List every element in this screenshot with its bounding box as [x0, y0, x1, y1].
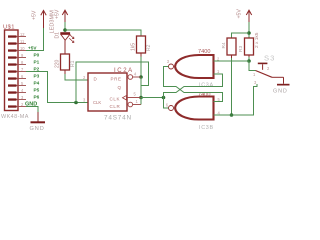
svg-text:Q: Q	[118, 85, 122, 90]
svg-text:WK48-MA: WK48-MA	[1, 114, 29, 120]
wire +5V to LED	[64, 22, 66, 32]
GND symbol under connector	[37, 112, 39, 122]
wire R3 down to switch node	[248, 57, 250, 61]
svg-text:P2: P2	[34, 66, 40, 71]
FF clock triangle on right edge	[123, 96, 127, 101]
switch S3 lever	[256, 71, 273, 78]
wire gate1 input 2 to node	[214, 60, 250, 62]
wire gate1 output cross-couple to gate2 input 5	[164, 67, 223, 102]
svg-text:11: 11	[20, 39, 25, 44]
ground at switch	[283, 77, 285, 84]
svg-text:GND: GND	[30, 126, 45, 132]
wire gate2 output to latch node	[164, 98, 169, 109]
wire R2 down to PRE node	[140, 57, 142, 78]
gate IC3B pin numbers	[166, 97, 221, 116]
svg-text:IC3B: IC3B	[199, 125, 214, 131]
node gate2 lower input	[230, 113, 234, 117]
svg-text:10: 10	[20, 46, 25, 51]
svg-text:220: 220	[55, 59, 61, 68]
svg-text:+5V: +5V	[237, 9, 243, 19]
+5V supply at LED	[62, 10, 67, 15]
connector pin lines	[17, 37, 27, 107]
node at LED anode	[63, 28, 67, 32]
svg-text:1k5: 1k5	[131, 43, 137, 51]
net labels on connector	[25, 45, 40, 107]
wire GND from connector	[26, 107, 38, 113]
nand gate IC3A bubble	[169, 64, 174, 69]
wire node down to switch contact	[249, 61, 256, 71]
flip-flop IC2A body	[88, 73, 127, 111]
nand gate IC3B bubble	[169, 106, 174, 111]
node pullup top	[247, 31, 251, 35]
svg-text:R4: R4	[221, 42, 227, 48]
svg-text:P6: P6	[34, 94, 40, 99]
svg-text:R1: R1	[70, 60, 76, 67]
svg-text:7400: 7400	[198, 49, 210, 55]
svg-text:+5V: +5V	[32, 10, 38, 20]
wire Q node to latch node	[141, 97, 164, 99]
wire P2 pin to FF CLK input	[26, 72, 88, 103]
wire R4 down to gate2 input node	[231, 58, 233, 115]
svg-text:D1: D1	[55, 32, 61, 39]
nand gate IC3B body	[175, 97, 213, 120]
gate IC3A pin numbers	[167, 57, 220, 75]
wire PRE node down to Q node	[140, 77, 142, 98]
resistor R3	[245, 38, 254, 55]
wire latch node cross-couple to gate1 input 1	[164, 74, 223, 98]
wire +5V node to R2	[65, 30, 141, 36]
svg-text:S3: S3	[264, 54, 275, 63]
svg-text:IC3A: IC3A	[199, 83, 214, 89]
svg-text:P3: P3	[34, 73, 40, 78]
node PRE	[139, 75, 143, 79]
FF interior labels	[93, 77, 122, 110]
svg-text:R3: R3	[238, 46, 244, 52]
svg-text:PRE: PRE	[111, 77, 122, 82]
node switch pullup	[247, 59, 251, 63]
resistor R1	[61, 54, 70, 70]
svg-text:74S74N: 74S74N	[104, 115, 132, 122]
FF PRE pin with bubble	[128, 75, 133, 80]
svg-text:R2: R2	[146, 44, 152, 51]
FF Q pin	[127, 97, 141, 99]
nand gate IC3A body	[175, 55, 213, 78]
wire gate2 input 4 through node to switch throw B	[214, 84, 258, 115]
svg-text:+5V: +5V	[28, 45, 37, 50]
FF pin numbers	[83, 72, 139, 105]
connector pin bars	[8, 35, 17, 107]
resistor R2	[137, 36, 146, 53]
svg-text:GND: GND	[273, 88, 288, 94]
wire +5V to pullups	[248, 22, 250, 38]
svg-text:LED3MM: LED3MM	[50, 10, 56, 34]
connector U$1 body	[5, 30, 19, 111]
svg-text:CLK: CLK	[93, 100, 101, 105]
LED D1	[60, 32, 74, 54]
+5V supply at pullups	[246, 10, 251, 15]
wire +5V to pin 10	[26, 28, 44, 51]
wire CLK riser and top run to R2 column	[76, 62, 149, 103]
svg-text:P5: P5	[34, 87, 40, 92]
switch pin numbers	[253, 66, 270, 85]
node CLK junction	[74, 101, 78, 105]
svg-text:2 x 1k5: 2 x 1k5	[254, 32, 260, 48]
wire across to R4	[232, 33, 250, 38]
resistor R4	[227, 38, 236, 55]
node latch output	[162, 96, 166, 100]
svg-text:CLR: CLR	[110, 104, 121, 109]
svg-text:12: 12	[20, 32, 25, 37]
svg-text:P0: P0	[34, 52, 40, 57]
FF CLR pin with bubble	[128, 102, 133, 107]
node Q	[139, 96, 143, 100]
connector pin numbers	[20, 32, 25, 107]
svg-text:CLK: CLK	[110, 97, 121, 102]
wire R1 to FF D input	[65, 74, 88, 80]
+5V supply at connector	[41, 10, 46, 15]
svg-text:P4: P4	[34, 80, 40, 85]
switch S3 contact A	[258, 63, 268, 65]
wire CLR pin up to Q node	[140, 98, 142, 105]
svg-text:P1: P1	[34, 59, 40, 64]
